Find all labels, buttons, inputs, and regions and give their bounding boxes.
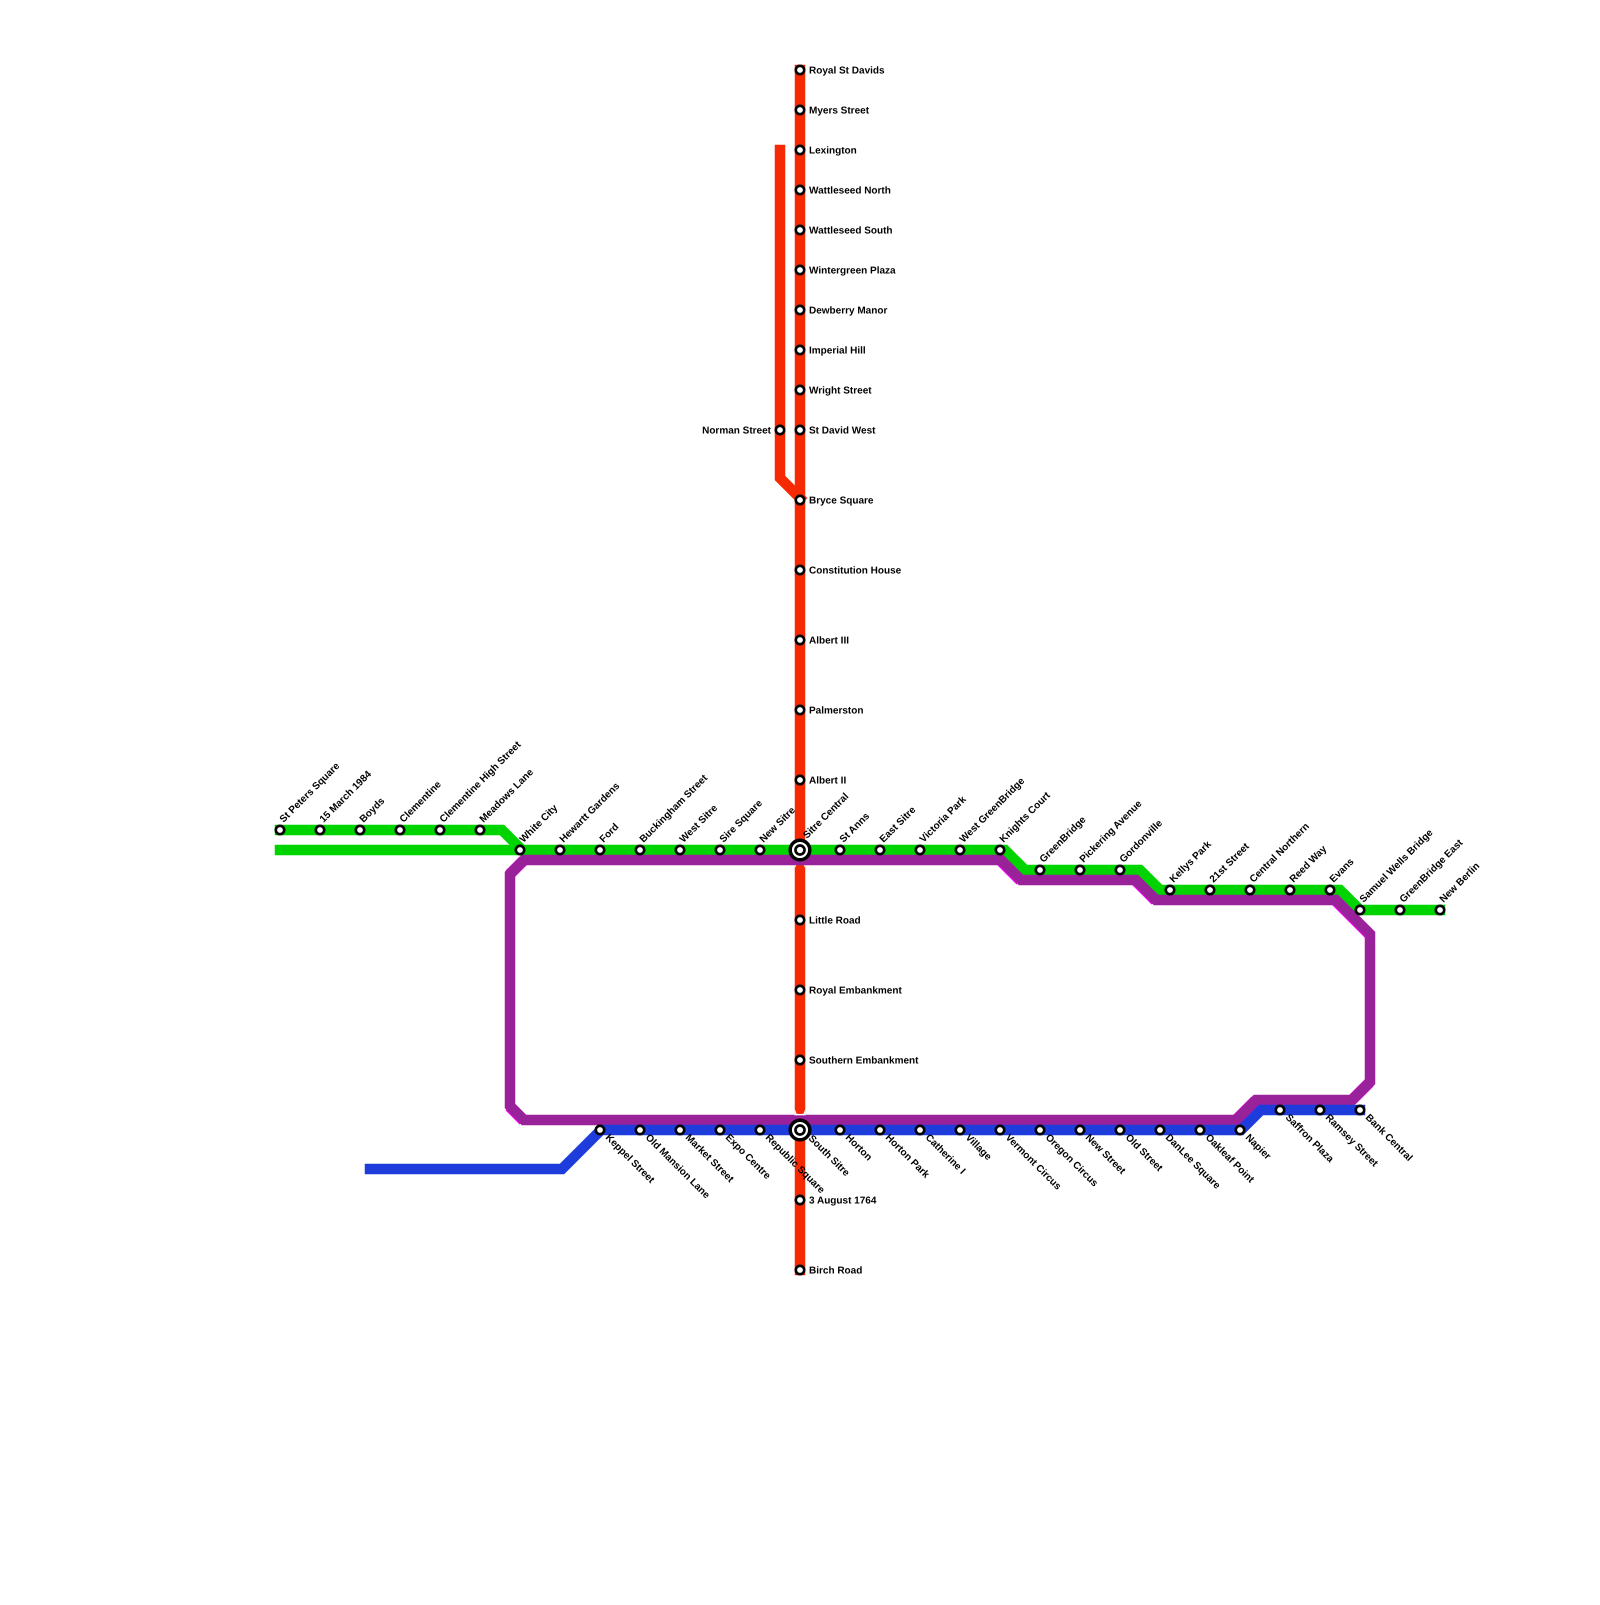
svg-text:New Sitre: New Sitre	[758, 805, 798, 845]
svg-text:Wright Street: Wright Street	[809, 386, 872, 397]
svg-text:Little Road: Little Road	[809, 916, 861, 927]
svg-text:St Anns: St Anns	[838, 811, 873, 846]
svg-text:Norman Street: Norman Street	[702, 426, 772, 437]
svg-text:Kellys Park: Kellys Park	[1168, 839, 1214, 885]
svg-text:Palmerston: Palmerston	[809, 706, 863, 717]
svg-text:Evans: Evans	[1328, 856, 1357, 885]
svg-text:Reed Way: Reed Way	[1288, 844, 1330, 886]
svg-text:Royal Embankment: Royal Embankment	[809, 986, 902, 997]
svg-text:Samuel Wells Bridge: Samuel Wells Bridge	[1358, 827, 1436, 905]
svg-text:Buckingham Street: Buckingham Street	[638, 772, 711, 845]
svg-text:Wattleseed North: Wattleseed North	[809, 186, 891, 197]
svg-text:West Sitre: West Sitre	[678, 803, 721, 846]
svg-text:St David West: St David West	[809, 426, 876, 437]
svg-text:Boyds: Boyds	[358, 795, 388, 825]
svg-text:West GreenBridge: West GreenBridge	[958, 775, 1028, 845]
svg-text:Wattleseed South: Wattleseed South	[809, 226, 893, 237]
svg-text:Clementine High Street: Clementine High Street	[438, 739, 524, 825]
svg-text:21st Street: 21st Street	[1208, 841, 1252, 885]
svg-text:Wintergreen Plaza: Wintergreen Plaza	[809, 266, 896, 277]
svg-text:Myers Street: Myers Street	[809, 106, 870, 117]
svg-text:Southern Embankment: Southern Embankment	[809, 1056, 919, 1067]
svg-text:New Berlin: New Berlin	[1438, 861, 1482, 905]
svg-text:Horton: Horton	[843, 1132, 874, 1163]
svg-text:East Sitre: East Sitre	[878, 804, 919, 845]
svg-text:Birch Road: Birch Road	[809, 1266, 862, 1277]
svg-text:Albert II: Albert II	[809, 776, 846, 787]
svg-text:Bryce Square: Bryce Square	[809, 496, 874, 507]
svg-text:Constitution House: Constitution House	[809, 566, 902, 577]
svg-text:Clementine: Clementine	[398, 779, 444, 825]
svg-text:Ford: Ford	[598, 822, 621, 845]
svg-text:Lexington: Lexington	[809, 146, 857, 157]
svg-text:3 August 1764: 3 August 1764	[809, 1196, 877, 1207]
svg-text:Royal St Davids: Royal St Davids	[809, 66, 885, 77]
svg-text:Old Street: Old Street	[1123, 1132, 1165, 1174]
svg-text:Dewberry Manor: Dewberry Manor	[809, 306, 887, 317]
svg-text:Napier: Napier	[1243, 1132, 1273, 1162]
svg-text:Imperial Hill: Imperial Hill	[809, 346, 866, 357]
svg-text:White City: White City	[518, 802, 561, 845]
svg-text:Albert III: Albert III	[809, 636, 849, 647]
svg-text:Village: Village	[963, 1132, 994, 1163]
